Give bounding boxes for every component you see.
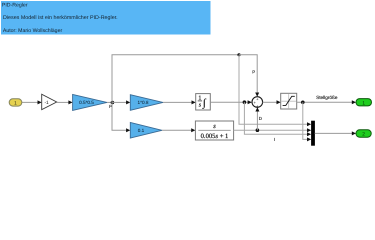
svg-text:2: 2 (362, 132, 365, 138)
gain -1 (42, 94, 57, 110)
node Stellgroesse tap (301, 101, 305, 105)
node D junction (256, 128, 260, 132)
wire node D up to sum (D into sum) (255, 107, 259, 130)
svg-text:I: I (274, 137, 275, 142)
wire gain 0.5*0.5 to node P (107, 101, 112, 103)
wire mux to outport 2 (315, 131, 356, 135)
outport 1 (356, 99, 372, 107)
svg-text:1: 1 (362, 100, 365, 106)
svg-text:1: 1 (14, 100, 17, 106)
wire top to sum (P into sum) (239, 55, 259, 97)
svg-text:PID-Regler: PID-Regler (2, 2, 28, 8)
wire I tap down to mux input 3 (244, 102, 311, 136)
svg-text:s: s (213, 123, 216, 130)
wire saturation to outport 1 (Stellgroesse) (297, 100, 356, 104)
wire node P down to gain 0.1 (112, 102, 130, 132)
wire gain 0.1 to transfer function (162, 128, 195, 132)
wire gain -1 to gain 0.5*0.5 (57, 100, 73, 104)
svg-text:Autor: Mario Wollschläger: Autor: Mario Wollschläger (3, 28, 63, 34)
wire transfer function to node D and mux input 2 (234, 128, 312, 132)
integrator 1/s (196, 94, 211, 110)
transfer function s/(0.005s+1) (195, 121, 233, 140)
gain 0.1 (130, 123, 162, 139)
wire Stellgroesse tap down to mux input 4 (303, 102, 311, 141)
svg-text:Stellgröße: Stellgröße (316, 95, 338, 100)
svg-text:1*0.8: 1*0.8 (138, 100, 149, 105)
gain 1*0.8 (130, 95, 163, 111)
inport 1 (9, 99, 22, 107)
wire integrator to sum (210, 100, 252, 104)
sum (252, 97, 263, 109)
svg-text:D: D (259, 116, 262, 121)
svg-text:-1: -1 (44, 100, 49, 106)
wire branch up from node P (112, 55, 239, 103)
saturation (281, 93, 297, 109)
wire sum to saturation (263, 100, 281, 104)
svg-text:0.5*0.5: 0.5*0.5 (79, 100, 94, 105)
node on top wire (P tap) (237, 53, 240, 56)
wire inport to gain -1 (22, 100, 42, 104)
node P junction (111, 101, 115, 105)
mux (311, 121, 315, 146)
svg-text:P: P (252, 70, 255, 75)
wire gain 1*0.8 to integrator (163, 100, 196, 104)
svg-text:Dieses Modell ist ein herkömml: Dieses Modell ist ein herkömmlicher PID-… (3, 15, 118, 21)
svg-text:0.1: 0.1 (138, 128, 145, 133)
wire node P to gain 1*0.8 (112, 100, 130, 104)
svg-text:0.005s + 1: 0.005s + 1 (201, 133, 229, 140)
annotation box PID-Regler (1, 1, 211, 35)
outport 2 (356, 130, 371, 138)
gain 0.5*0.5 (73, 94, 107, 110)
node I tap on integrator output (243, 100, 247, 104)
wire P tap down to mux input 1 (239, 55, 311, 127)
